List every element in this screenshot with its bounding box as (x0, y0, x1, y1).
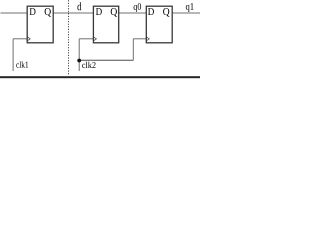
flip-flop U2 box (93, 6, 118, 43)
U1 pin label D (30, 8, 36, 15)
wire net q0: U2 Q to U3 D (119, 12, 147, 14)
flip-flop U1 box (27, 6, 53, 43)
wire clk2 horizontal into U2 clock pin (79, 38, 93, 40)
net label clk1 (16, 61, 28, 67)
net label q1 (186, 3, 194, 12)
flip-flop U1 clock triangle (27, 37, 30, 41)
net label d (77, 2, 81, 10)
clock-domain partition dotted line (68, 0, 70, 75)
U3 pin label Q (163, 8, 169, 17)
wire clk1 vertical riser (12, 39, 14, 71)
wire clk2 vertical riser to U3 clock (132, 39, 134, 61)
wire clk2 vertical riser to U2 clock (78, 39, 80, 71)
U1 pin label Q (45, 8, 51, 17)
net label q0 (134, 3, 142, 12)
wire clk1 horizontal into U1 clock pin (13, 38, 27, 40)
wire clk2 bus to U3 (79, 59, 133, 61)
wire clk2 horizontal into U3 clock pin (133, 38, 146, 40)
wire net d: U1 Q to U2 D (53, 12, 93, 14)
flip-flop U3 clock triangle (146, 37, 149, 41)
wire net q1: U3 Q to right edge (172, 12, 200, 14)
U2 pin label D (96, 8, 102, 15)
flip-flop U2 clock triangle (93, 37, 96, 41)
flip-flop U3 box (146, 6, 172, 43)
junction dot on clk2 net (77, 59, 81, 63)
net label clk2 (82, 62, 95, 68)
U2 pin label Q (111, 8, 117, 17)
bottom rule (0, 76, 200, 78)
U3 pin label D (148, 8, 154, 15)
wire input to U1 pin D (1, 12, 28, 14)
